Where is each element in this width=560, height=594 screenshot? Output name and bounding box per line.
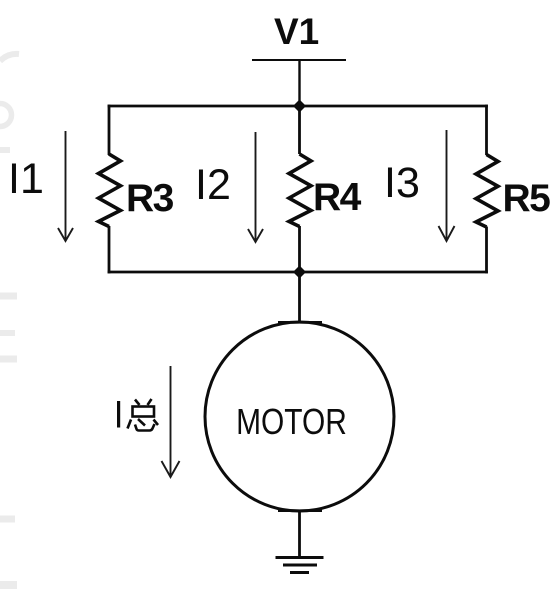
wire right branch bottom lead — [485, 227, 488, 274]
motor circle top flat — [278, 321, 322, 324]
node junction top — [293, 100, 306, 113]
voltage source V1 bar symbol — [252, 59, 346, 61]
wire left branch bottom lead — [108, 226, 111, 273]
wire right branch top lead — [485, 105, 488, 155]
wire left branch top lead — [108, 105, 111, 155]
current arrow I3 — [439, 130, 455, 241]
resistor R4 — [289, 154, 311, 227]
wire motor to ground — [298, 510, 301, 557]
current arrow I2 — [248, 132, 263, 242]
total current label zong (CJK) drawn as strokes — [128, 399, 159, 431]
total current arrow I zong — [162, 366, 180, 477]
ground symbol — [276, 558, 324, 573]
current arrow I1 — [58, 131, 73, 241]
wire middle branch bottom lead — [298, 226, 301, 272]
node junction bottom — [293, 266, 306, 279]
svg-text:I1: I1 — [8, 155, 44, 203]
motor M circle — [205, 322, 394, 511]
svg-text:R5: R5 — [503, 177, 551, 220]
svg-text:R4: R4 — [313, 176, 362, 219]
svg-text:V1: V1 — [274, 11, 319, 52]
svg-text:I2: I2 — [195, 161, 231, 209]
svg-text:R3: R3 — [126, 177, 174, 220]
svg-text:I3: I3 — [384, 159, 420, 207]
wire V1 to top bus — [298, 60, 300, 106]
wire middle branch top lead — [298, 106, 301, 154]
svg-text:MOTOR: MOTOR — [236, 402, 347, 442]
wire bottom bus — [108, 271, 488, 274]
total current label I (of I zong) — [117, 401, 120, 428]
resistor R5 — [476, 155, 498, 228]
motor circle bottom flat — [278, 509, 322, 512]
faint watermark (decorative) — [0, 54, 19, 585]
wire top bus — [108, 105, 488, 108]
resistor R3 — [99, 154, 121, 227]
wire bus to motor — [298, 272, 301, 323]
